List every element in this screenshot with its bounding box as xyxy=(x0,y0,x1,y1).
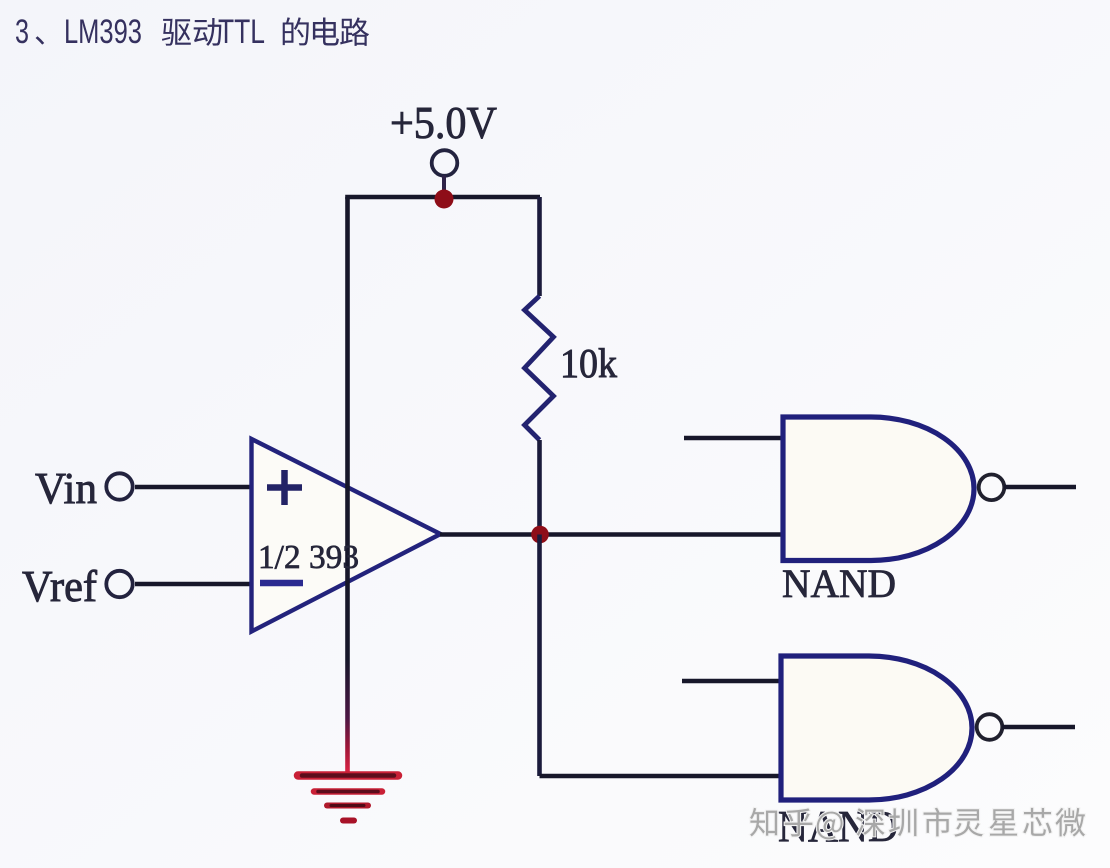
wire resistor to output node xyxy=(537,440,542,535)
svg-text:1/2 393: 1/2 393 xyxy=(258,539,359,576)
svg-text:Vin: Vin xyxy=(35,464,97,513)
ground xyxy=(298,776,398,821)
NAND gate U2 xyxy=(684,417,1076,606)
NAND gate U3 xyxy=(682,656,1075,851)
svg-text:TTL: TTL xyxy=(218,13,265,51)
terminal +5.0V xyxy=(432,150,458,176)
wire op-amp output to gate 1 xyxy=(440,532,783,536)
plus input symbol xyxy=(267,470,302,505)
wire top horizontal xyxy=(345,195,540,200)
gate 2 body xyxy=(781,656,972,800)
svg-text:Vref: Vref xyxy=(22,562,97,611)
gate 1 input stub upper xyxy=(684,436,783,440)
op-amp U1 1/2 LM393 triangle xyxy=(252,439,441,632)
svg-text:LM393: LM393 xyxy=(64,13,142,51)
svg-text:3: 3 xyxy=(15,13,29,51)
wire output node down xyxy=(537,535,542,777)
gate 1 body xyxy=(783,417,974,561)
gate 2 input stub upper xyxy=(682,679,781,683)
gate 2 output wire xyxy=(1002,725,1075,729)
gate 1 inversion bubble xyxy=(979,475,1005,501)
junction node output xyxy=(531,526,549,544)
svg-text:NAND: NAND xyxy=(782,561,896,606)
svg-text:10k: 10k xyxy=(560,340,617,386)
wire Vref to op-amp xyxy=(135,582,252,586)
wire stem from terminal xyxy=(442,176,446,194)
Vref terminal xyxy=(106,571,132,597)
gate 2 inversion bubble xyxy=(977,714,1003,740)
gate 1 output wire xyxy=(1004,485,1076,489)
svg-text:+5.0V: +5.0V xyxy=(390,98,497,148)
resistor R1 zigzag xyxy=(525,296,554,440)
wire Vin to op-amp xyxy=(135,485,252,489)
wire left vertical through op-amp to ground xyxy=(345,197,350,776)
minus input symbol xyxy=(260,580,303,587)
Vin terminal xyxy=(106,473,132,499)
wire right vertical to resistor xyxy=(537,197,542,296)
wire to gate 2 lower input xyxy=(540,774,782,779)
junction dot at +5V xyxy=(435,190,454,209)
watermark xyxy=(750,808,777,836)
